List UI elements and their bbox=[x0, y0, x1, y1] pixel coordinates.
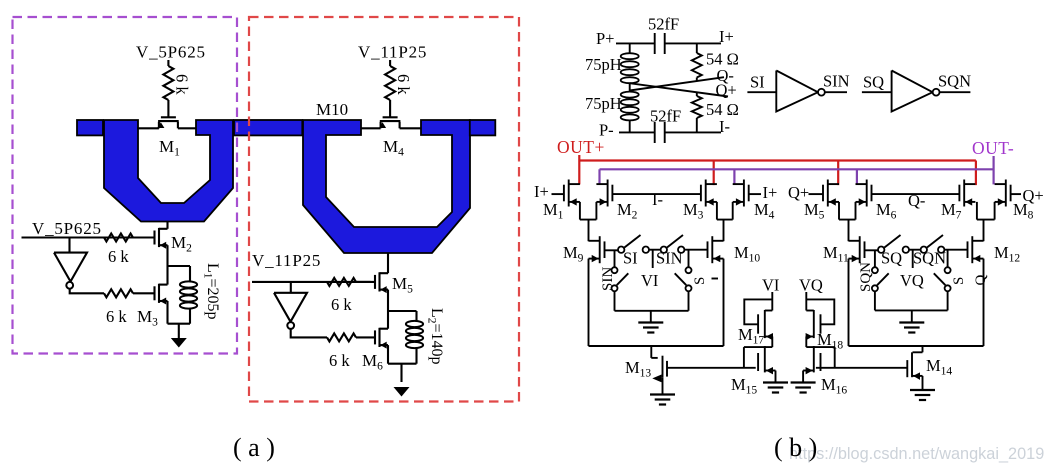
wire resistor to M1 gate bbox=[167, 100, 169, 117]
transistor M17 (diode) bbox=[757, 314, 759, 333]
svg-text:SIN: SIN bbox=[823, 72, 850, 91]
resistor 6k (M2 path) bbox=[104, 234, 133, 242]
wire top rail (P+ to I+) bbox=[616, 42, 654, 44]
wire inverter input drop bbox=[68, 238, 70, 253]
net OUT- purple bus bbox=[600, 168, 994, 170]
svg-text:SI: SI bbox=[623, 249, 638, 268]
svg-text:( b ): ( b ) bbox=[774, 433, 817, 462]
svg-text:S: S bbox=[951, 277, 967, 285]
transistor M18 (diode) bbox=[820, 314, 822, 333]
switch SI lever bbox=[624, 235, 640, 248]
wire Q+ to M5 gate bbox=[809, 193, 824, 195]
svg-text:52fF: 52fF bbox=[650, 107, 681, 126]
transistor M14 bbox=[906, 360, 908, 377]
svg-text:P+: P+ bbox=[596, 29, 614, 48]
resistor 6k (M4 gate bias) bbox=[385, 66, 395, 100]
wire inverter output to M3 gate bbox=[70, 289, 104, 294]
capacitor 52fF (top) bbox=[654, 33, 656, 54]
svg-text:SQ: SQ bbox=[863, 73, 884, 92]
wire V_5P625 to resistor bbox=[167, 60, 169, 66]
switch SIN-gnd lever bbox=[617, 273, 629, 285]
wire M9 gate to switch bbox=[605, 249, 619, 251]
inductor loop U1 (blue metal, left cell) bbox=[104, 120, 233, 222]
svg-text:S: S bbox=[692, 277, 708, 285]
switch SIN terminal (left) bbox=[661, 247, 667, 253]
wire switch rail center bbox=[649, 249, 661, 251]
transistor M7 (switch quad Q) bbox=[958, 185, 960, 202]
wire U2 to M5 drain bbox=[387, 253, 389, 273]
inductor L2 coil bbox=[406, 321, 423, 327]
svg-text:SQ: SQ bbox=[881, 249, 902, 268]
wire resistor to Q- node bbox=[696, 78, 698, 82]
svg-text:OUT+: OUT+ bbox=[557, 137, 605, 157]
inductor 75pH (lower coil) bbox=[621, 92, 639, 98]
wire cross line to Q- bbox=[630, 77, 724, 90]
resistor 54ohm (lower) bbox=[692, 96, 702, 118]
wire SIN output bbox=[825, 91, 847, 93]
ground (M3/L1, arrow style) bbox=[178, 324, 180, 338]
svg-text:SIN: SIN bbox=[656, 249, 683, 268]
wire M9 source to box bottom bbox=[588, 259, 590, 346]
wire SQN branch drop (left) bbox=[874, 250, 876, 267]
svg-text:52fF: 52fF bbox=[648, 15, 679, 34]
wire gate input rail (M5) bbox=[252, 281, 371, 283]
resistor 54ohm (upper) bbox=[692, 53, 702, 78]
wire M11 gate to switch bbox=[865, 249, 879, 251]
wire M4 gate to I+ bbox=[749, 193, 761, 195]
wire resistor column stub (top) bbox=[696, 43, 698, 53]
wire M11 source to box bottom bbox=[848, 259, 850, 346]
wire S branch drop (right) bbox=[688, 250, 690, 267]
svg-text:I-: I- bbox=[652, 190, 663, 209]
wire inverter input drop bbox=[290, 282, 292, 293]
svg-text:M10: M10 bbox=[316, 100, 348, 119]
resistor 6k (M5 path) bbox=[327, 278, 356, 286]
wire OUT+ drop to M1 drain (red) bbox=[578, 155, 580, 184]
wire gate input rail (M2) bbox=[22, 236, 151, 238]
switch SI terminal (right) bbox=[643, 247, 649, 253]
inductor L2 loop bottom wire bbox=[415, 349, 417, 364]
inductor 75pH (upper coil) bbox=[621, 53, 639, 59]
resistor 6k (M1 gate bias) bbox=[163, 66, 173, 100]
transistor M4 (top device, right cell) bbox=[383, 116, 398, 118]
wire SI input bbox=[747, 91, 776, 93]
wire tail pair M1/M2 to M9 bbox=[579, 202, 581, 220]
svg-text:VI: VI bbox=[762, 276, 779, 295]
switch S-gnd lever (Q) bbox=[934, 273, 946, 285]
svg-text:I+: I+ bbox=[763, 183, 778, 202]
svg-text:L2=140p: L2=140p bbox=[426, 308, 446, 365]
svg-text:Q+: Q+ bbox=[1023, 186, 1044, 205]
dashed boundary box (red, right bias cell) bbox=[249, 17, 519, 402]
svg-text:6 k: 6 k bbox=[173, 74, 192, 95]
svg-text:VI: VI bbox=[641, 271, 658, 290]
wire OUT- drop to M8 drain (purple) bbox=[992, 156, 994, 184]
svg-text:6 k: 6 k bbox=[394, 74, 413, 95]
wire VI drop bbox=[771, 292, 773, 311]
wire red bus to M5 drain bbox=[837, 161, 839, 186]
svg-text:75pH: 75pH bbox=[585, 55, 622, 74]
wire purple bus to M2 drain bbox=[598, 169, 600, 184]
svg-text:75pH: 75pH bbox=[585, 94, 622, 113]
wire V_11P25 to resistor bbox=[389, 60, 391, 66]
wire I+ to M1 gate bbox=[552, 193, 564, 195]
switch SQ terminal (left) bbox=[878, 247, 884, 253]
inductor L1 coil bbox=[180, 281, 197, 287]
wire M10 source to box bottom bbox=[723, 259, 725, 346]
wire M12 source to box bottom bbox=[983, 259, 985, 346]
wire tail pair M7/M8 to M12 bbox=[976, 202, 978, 220]
svg-text:Q+: Q+ bbox=[716, 81, 737, 100]
svg-text:6 k: 6 k bbox=[108, 247, 129, 266]
inductor L1 loop top wire bbox=[168, 265, 191, 267]
switch SQ terminal (right) bbox=[903, 247, 909, 253]
wire M2 gate to M3 gate (I- node) bbox=[612, 193, 701, 195]
svg-text:https://blog.csdn.net/wangkai_: https://blog.csdn.net/wangkai_2019 bbox=[789, 445, 1044, 463]
transistor M5 (switch quad Q) bbox=[822, 185, 824, 202]
wire SQN branch to rail bbox=[874, 291, 876, 310]
switch SIN lever bbox=[667, 235, 683, 248]
wire M17 source to M15 drain bbox=[771, 337, 773, 348]
switch SQN terminal (right) bbox=[938, 247, 944, 253]
wire left column (P+ down) bbox=[629, 43, 631, 53]
wire SIN branch drop (left) bbox=[614, 250, 616, 267]
buffer SQ->SQN (inverter) bbox=[892, 71, 933, 112]
wire switch ground rail bbox=[615, 310, 689, 312]
svg-text:VQ: VQ bbox=[799, 276, 823, 295]
svg-text:V_11P25: V_11P25 bbox=[358, 43, 427, 62]
switch SQN-gnd terminal lower bbox=[872, 285, 878, 291]
ground (M6/L2, arrow style) bbox=[400, 364, 402, 382]
svg-text:SQN: SQN bbox=[858, 262, 874, 292]
transistor M1 (switch quad I) bbox=[563, 185, 565, 202]
wire tail pair M3/M4 to M10 bbox=[716, 202, 718, 220]
transistor M4 (switch quad I) bbox=[748, 185, 750, 202]
transistor M13 bbox=[666, 361, 668, 377]
transistor M15 (diode) bbox=[757, 353, 759, 371]
switch SQN terminal (left) bbox=[921, 247, 927, 253]
svg-text:6 k: 6 k bbox=[106, 307, 127, 326]
wire bottom rail (P- to I-) bbox=[619, 131, 654, 133]
transistor M6 bbox=[374, 330, 376, 344]
wire resistor to bottom rail bbox=[696, 118, 698, 132]
ground (M15) bbox=[763, 381, 788, 383]
transistor M16 (diode) bbox=[820, 353, 822, 371]
wire SQN output bbox=[940, 91, 971, 93]
transistor M6 (switch quad Q) bbox=[871, 185, 873, 202]
svg-text:I+: I+ bbox=[719, 27, 734, 46]
wire VQ drop bbox=[805, 292, 807, 311]
ground (M14) bbox=[910, 389, 935, 391]
transistor M10 (current source I) bbox=[707, 241, 709, 258]
svg-text:V_11P25: V_11P25 bbox=[252, 251, 321, 270]
switch SQN-gnd terminal upper bbox=[872, 267, 878, 273]
wire M16 gate to M14 gate bbox=[816, 367, 907, 369]
wire cross line to Q+ bbox=[630, 83, 728, 96]
wire resistor to M5 gate bbox=[356, 281, 375, 283]
wire M5 source to M6 drain bbox=[387, 290, 389, 329]
wire resistor to M3 gate bbox=[133, 292, 155, 294]
svg-text:I+: I+ bbox=[534, 182, 549, 201]
wire Q+ node to resistor bbox=[696, 92, 698, 96]
transistor M2 bbox=[153, 231, 155, 245]
wire switch ground rail (Q) bbox=[875, 309, 948, 311]
net OUT+ red bus bbox=[579, 159, 976, 161]
wire box bottom (M11/M12) bbox=[849, 345, 984, 347]
metal bar segment D (center-left) bbox=[234, 120, 302, 135]
ground (switch bank I) bbox=[638, 321, 663, 323]
wire M13 gate to M15 gate bbox=[667, 367, 756, 369]
resistor 6k (M3 path) bbox=[104, 289, 133, 297]
transistor M12 (current source Q) bbox=[967, 241, 969, 258]
wire tail pair M5/M6 to M11 bbox=[838, 202, 840, 220]
wire resistor to M4 gate bbox=[389, 100, 391, 117]
metal bar segment A (top-left stub) bbox=[77, 120, 103, 135]
wire red bus to M7 drain bbox=[975, 161, 977, 186]
wire M13 drain tap bbox=[650, 346, 652, 358]
svg-text:I-: I- bbox=[719, 117, 730, 136]
switch SIN terminal (right) bbox=[678, 247, 684, 253]
switch SIN-gnd terminal lower bbox=[612, 285, 618, 291]
ground (M16) bbox=[791, 381, 816, 383]
wire SIN branch to rail bbox=[614, 291, 616, 310]
transistor M9 (current source I) bbox=[604, 241, 606, 258]
wire S branch to rail (Q) bbox=[947, 291, 949, 310]
switch SQ lever bbox=[884, 235, 900, 248]
inductor L1 loop bottom wire bbox=[189, 309, 191, 324]
transistor M3 (switch quad I) bbox=[700, 185, 702, 202]
svg-text:L1=205p: L1=205p bbox=[202, 263, 222, 320]
svg-text:V_5P625: V_5P625 bbox=[32, 219, 102, 238]
wire M6 source down bbox=[387, 345, 389, 364]
wire inverter output to M6 gate bbox=[291, 329, 327, 337]
switch S-gnd terminal upper (Q) bbox=[945, 267, 951, 273]
inductor L2 loop top wire bbox=[388, 310, 417, 312]
wire switch to M10 gate bbox=[684, 249, 707, 251]
wire S branch to rail bbox=[688, 291, 690, 310]
svg-text:SQN: SQN bbox=[938, 72, 971, 91]
transistor M1 (top device, left cell) bbox=[161, 116, 176, 118]
svg-text:SI: SI bbox=[750, 73, 765, 92]
svg-text:V_5P625: V_5P625 bbox=[136, 43, 206, 62]
transistor M3 bbox=[153, 286, 155, 300]
label I (rotated tick) bbox=[712, 278, 719, 280]
wire M18 source to M16 drain bbox=[805, 337, 807, 348]
wire box bottom (M9/M10) bbox=[589, 345, 724, 347]
wire M3 source down bbox=[166, 301, 168, 324]
svg-text:Q-: Q- bbox=[908, 191, 925, 210]
wire resistor to M6 gate bbox=[356, 336, 375, 338]
metal bar segment G (top-right stub) bbox=[470, 120, 496, 135]
wire M2 source to M3 drain bbox=[166, 245, 168, 284]
switch S-gnd terminal lower bbox=[686, 285, 692, 291]
inductor loop U2 (blue metal, right cell) bbox=[303, 120, 470, 253]
switch S-gnd lever bbox=[675, 273, 687, 285]
switch SQN-gnd lever bbox=[877, 273, 889, 285]
wire M8 gate to Q+ bbox=[1011, 193, 1021, 195]
transistor M5 bbox=[374, 275, 376, 289]
wire VQ stub bbox=[912, 250, 914, 268]
wire SQ input bbox=[862, 91, 892, 93]
buffer SI->SIN (inverter) bbox=[776, 71, 818, 112]
svg-text:OUT-: OUT- bbox=[972, 138, 1014, 158]
wire switch rail center (Q) bbox=[909, 249, 921, 251]
wire left column (to P-) bbox=[629, 121, 631, 133]
wire M14 drain tap bbox=[922, 346, 924, 352]
wire center tap segment bbox=[629, 83, 631, 91]
transistor M8 (switch quad Q) bbox=[1010, 185, 1012, 202]
wire purple bus to M6 drain bbox=[856, 169, 858, 184]
wire red bus to M3 drain bbox=[713, 161, 715, 186]
wire S branch drop (right, Q) bbox=[947, 250, 949, 267]
svg-text:6 k: 6 k bbox=[331, 295, 352, 314]
wire ground stub (switch bank Q) bbox=[911, 310, 913, 322]
transistor M11 (current source Q) bbox=[864, 241, 866, 258]
wire resistor to M2 gate bbox=[133, 236, 155, 238]
wire ground stub (switch bank I) bbox=[650, 311, 652, 322]
ground (switch bank Q) bbox=[899, 321, 924, 323]
svg-text:SQN: SQN bbox=[913, 249, 946, 268]
dashed boundary box (purple, left bias cell) bbox=[13, 17, 238, 354]
wire purple bus to M4 drain bbox=[733, 169, 735, 184]
resistor 6k (M6 path) bbox=[327, 333, 356, 341]
ground (M13) bbox=[650, 393, 675, 395]
inverter (left cell) bbox=[54, 253, 87, 282]
switch SIN-gnd terminal upper bbox=[612, 267, 618, 273]
svg-text:54 Ω: 54 Ω bbox=[706, 100, 739, 119]
wire M6 gate to M7 gate (Q- node) bbox=[872, 193, 960, 195]
svg-text:6 k: 6 k bbox=[329, 351, 350, 370]
switch S-gnd terminal upper bbox=[686, 267, 692, 273]
svg-text:SIN: SIN bbox=[600, 267, 616, 291]
switch SI terminal (left) bbox=[618, 247, 624, 253]
transistor M2 (switch quad I) bbox=[611, 185, 613, 202]
svg-text:VQ: VQ bbox=[900, 271, 924, 290]
inverter (right cell) bbox=[274, 293, 307, 322]
switch S-gnd terminal lower (Q) bbox=[945, 285, 951, 291]
capacitor 52fF (bottom) bbox=[654, 122, 656, 143]
wire U1 to M2 drain bbox=[166, 222, 168, 229]
wire VI stub bbox=[652, 250, 654, 268]
svg-text:( a ): ( a ) bbox=[233, 433, 275, 462]
wire switch to M12 gate bbox=[944, 249, 967, 251]
switch SQN lever bbox=[927, 235, 943, 248]
svg-text:Q: Q bbox=[973, 275, 989, 286]
